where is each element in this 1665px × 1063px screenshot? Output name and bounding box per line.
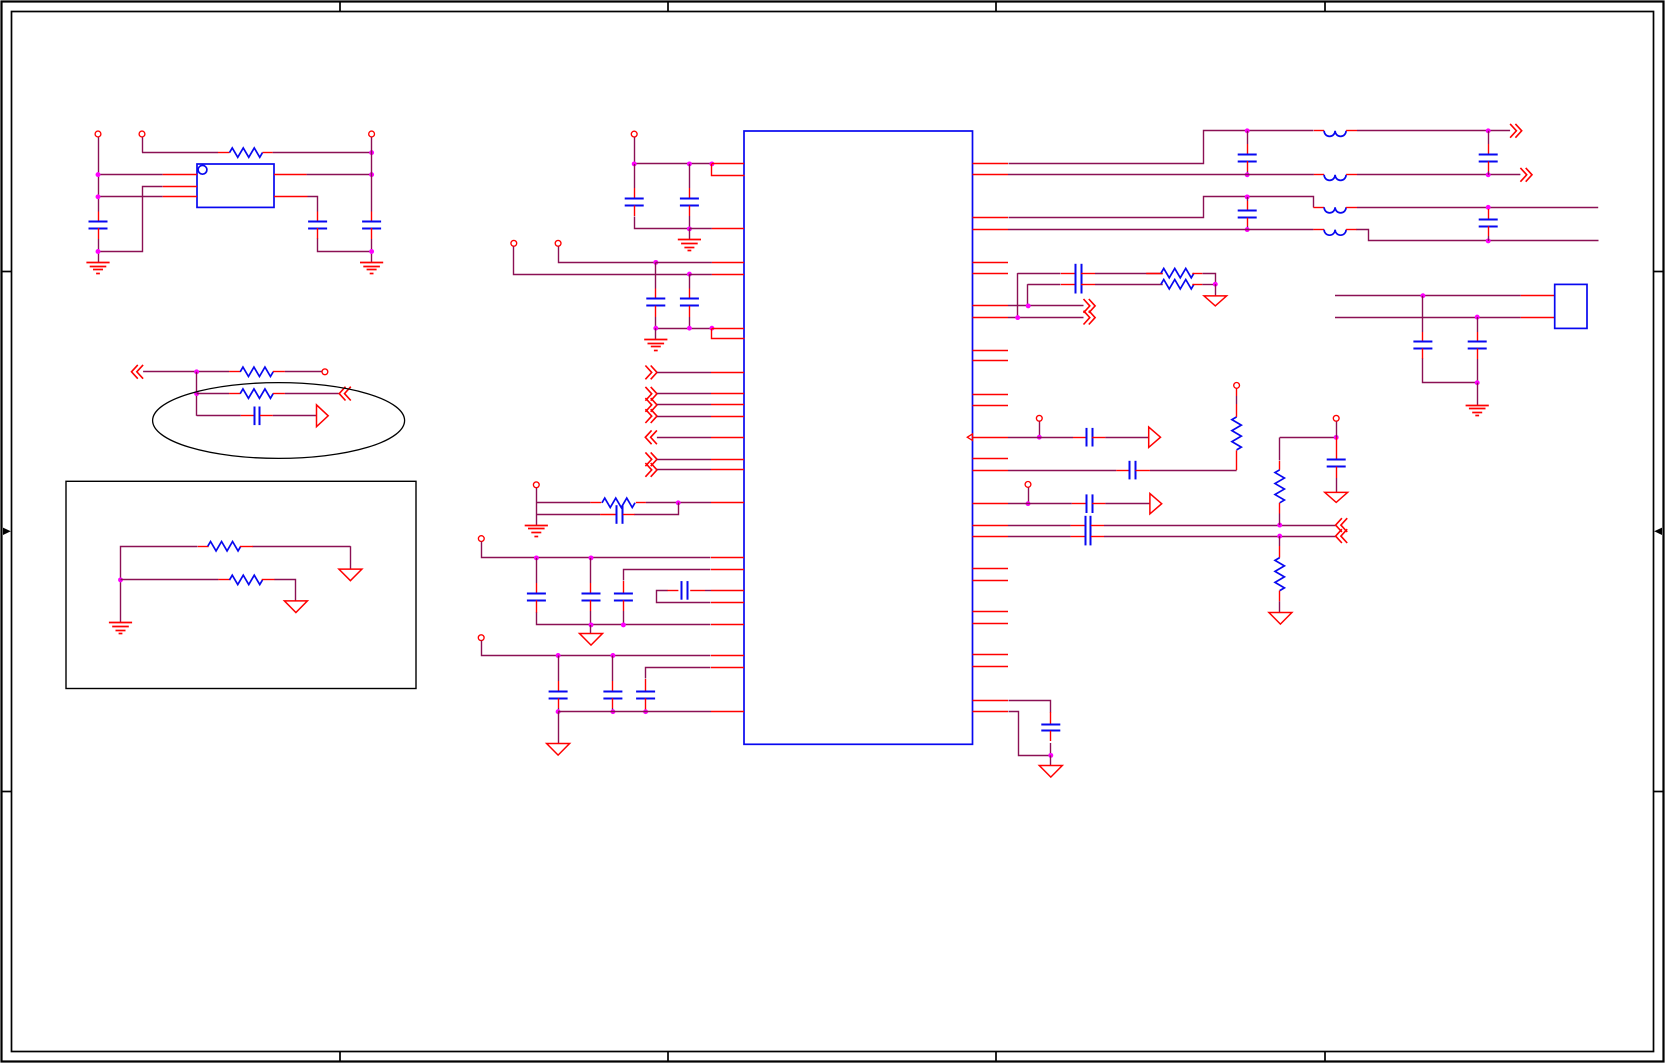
arrow symbol	[1150, 494, 1162, 514]
capacitor C4 lead	[260, 415, 273, 417]
capacitor C10	[527, 594, 546, 601]
resistor R10 lead	[1279, 461, 1281, 470]
wire	[612, 708, 614, 712]
inductor L3	[1313, 207, 1324, 209]
wire	[1008, 174, 1314, 176]
capacitor C16 lead	[645, 698, 647, 711]
wire	[612, 656, 614, 682]
node junction	[643, 709, 648, 714]
off-page connector chevron	[1520, 168, 1532, 182]
node junction	[1277, 523, 1282, 528]
wire	[142, 152, 218, 154]
U2 pin lead	[711, 502, 744, 504]
node junction	[1026, 501, 1031, 506]
wire	[1008, 470, 1116, 472]
capacitor C22 lead	[1081, 284, 1095, 286]
capacitor C8	[680, 299, 699, 306]
wire	[655, 328, 657, 339]
capacitor C4	[255, 407, 260, 426]
capacitor C11 lead	[590, 600, 592, 611]
wire	[657, 469, 711, 471]
capacitor C31 lead	[1477, 317, 1479, 332]
U2 pin lead	[711, 711, 744, 713]
wire	[99, 187, 163, 252]
connector J1	[1555, 284, 1587, 328]
capacitor C14 lead	[558, 681, 560, 692]
off-page connector chevron	[645, 398, 657, 412]
power ground triangle	[1039, 766, 1062, 778]
capacitor C18 lead	[1488, 161, 1490, 171]
capacitor C23	[1087, 428, 1093, 447]
wire	[1336, 478, 1338, 492]
wire	[1009, 701, 1051, 713]
resistor R7	[1146, 273, 1163, 275]
capacitor C19 lead	[1247, 201, 1249, 211]
node junction	[194, 369, 199, 374]
power ground triangle	[1204, 296, 1227, 306]
wire	[689, 216, 691, 229]
wire	[285, 371, 322, 373]
U2 pin lead	[712, 329, 745, 339]
capacitor C9 lead	[600, 514, 617, 516]
wire	[1008, 525, 1071, 527]
group frame box	[66, 481, 416, 688]
capacitor C1	[89, 222, 108, 229]
off-page connector chevron	[645, 463, 657, 477]
wire	[1357, 207, 1598, 209]
border zone ticks top	[340, 2, 1325, 12]
wire	[482, 542, 711, 558]
wire	[285, 393, 339, 395]
wire	[1357, 230, 1599, 241]
capacitor C29	[1041, 725, 1060, 731]
capacitor C3 lead	[371, 212, 373, 222]
node junction	[1026, 303, 1031, 308]
border center arrow left	[3, 528, 11, 535]
node junction	[1213, 282, 1218, 287]
U2 pin arrow	[967, 434, 972, 441]
wire	[1008, 536, 1071, 538]
capacitor C14 lead	[558, 698, 560, 708]
capacitor C23 lead	[1073, 437, 1086, 439]
node junction	[610, 653, 615, 658]
U2 pin lead	[711, 393, 744, 395]
capacitor C26	[1086, 516, 1091, 535]
node junction	[1245, 194, 1250, 199]
wire	[318, 239, 372, 252]
wire	[1009, 197, 1314, 218]
wire	[657, 404, 711, 406]
wire	[689, 164, 691, 188]
resistor R10 lead	[1279, 503, 1281, 514]
wire	[1050, 755, 1052, 765]
border zone ticks left	[2, 272, 12, 792]
wire	[371, 137, 373, 211]
node junction	[687, 226, 692, 231]
wire	[536, 488, 538, 525]
U2 pin stub	[973, 458, 1009, 460]
power ground triangle	[339, 569, 362, 581]
node junction	[96, 172, 101, 177]
capacitor C21 lead	[1081, 273, 1095, 275]
wire	[1247, 197, 1249, 201]
U2 pin stub	[973, 580, 1009, 582]
capacitor C21	[1076, 264, 1082, 283]
capacitor C15 lead	[612, 698, 614, 708]
capacitor C7 lead	[655, 306, 657, 317]
wire	[558, 708, 560, 712]
node junction	[194, 391, 199, 396]
wire	[1008, 317, 1084, 319]
U2 pin lead	[973, 305, 1009, 307]
wire	[590, 611, 592, 625]
port P2	[139, 131, 145, 137]
capacitor C25 lead	[1072, 503, 1087, 505]
capacitor C7 lead	[655, 289, 657, 300]
wire	[536, 502, 590, 504]
port P9	[478, 536, 484, 542]
U2 pin lead	[711, 590, 744, 592]
off-page connector chevron	[645, 366, 657, 380]
node junction	[1015, 315, 1020, 320]
port P8	[533, 482, 539, 488]
wire	[634, 137, 636, 164]
node junction	[1334, 435, 1339, 440]
U2 pin stub	[973, 611, 1009, 613]
capacitor C15 lead	[612, 681, 614, 692]
U2 pin lead	[712, 228, 744, 230]
capacitor C31	[1468, 342, 1487, 349]
wire	[1017, 273, 1019, 318]
inductor L4	[1313, 229, 1324, 231]
U2 pin lead	[712, 164, 745, 176]
U2 pin lead	[711, 655, 744, 657]
wire	[656, 328, 712, 330]
capacitor C13 lead	[690, 590, 705, 592]
capacitor C22 lead	[1061, 284, 1075, 286]
node junction	[1277, 534, 1282, 539]
capacitor C19 lead	[1247, 218, 1249, 226]
wire	[1039, 421, 1041, 437]
capacitor C6	[680, 199, 699, 206]
U1 pin-1 circle	[198, 165, 207, 174]
U2 pin lead	[973, 437, 1009, 439]
border zone ticks right	[1654, 272, 1664, 792]
wire	[1279, 601, 1281, 612]
node junction	[118, 577, 123, 582]
off-page connector chevron	[1336, 518, 1348, 532]
inductor L1	[1314, 130, 1324, 132]
wire	[1247, 171, 1249, 175]
wire	[1150, 470, 1237, 472]
node junction	[687, 272, 692, 277]
wire	[1008, 305, 1084, 307]
U2 pin lead	[711, 569, 744, 571]
capacitor C24	[1130, 461, 1136, 480]
inductor L2	[1314, 174, 1324, 176]
ground	[86, 263, 109, 274]
resistor R9 lead	[1236, 450, 1238, 470]
U2 pin stub	[973, 623, 1009, 625]
wire	[273, 152, 372, 154]
U2 pin lead	[711, 437, 744, 439]
ground	[525, 526, 548, 537]
wire	[1279, 536, 1281, 546]
wire	[197, 415, 241, 417]
U2 pin lead	[711, 624, 744, 626]
off-page connector chevron	[1084, 299, 1096, 313]
capacitor C20 lead	[1488, 226, 1490, 236]
wire	[558, 712, 560, 744]
node junction	[96, 249, 101, 254]
U2 pin lead	[712, 163, 744, 165]
capacitor C28 lead	[1336, 437, 1338, 459]
wire	[1215, 284, 1217, 296]
capacitor C18 lead	[1488, 144, 1490, 155]
port P6	[511, 240, 517, 246]
capacitor C7	[646, 299, 665, 306]
capacitor C2 lead	[317, 228, 319, 239]
ground	[644, 340, 667, 351]
port P7	[555, 240, 561, 246]
wire	[1009, 712, 1051, 756]
connector J1 lead	[1521, 317, 1555, 319]
wire	[655, 317, 657, 328]
wire	[1335, 317, 1521, 319]
U2 pin lead	[973, 163, 1009, 165]
node junction	[687, 161, 692, 166]
wire	[98, 137, 100, 211]
node junction	[589, 555, 594, 560]
U2 pin lead	[712, 262, 744, 264]
wire	[121, 579, 219, 581]
capacitor C13	[682, 581, 688, 600]
off-page connector chevron	[132, 365, 144, 379]
resistor R11	[1275, 558, 1284, 591]
capacitor C21 lead	[1061, 273, 1075, 275]
power ground triangle	[1269, 613, 1292, 625]
wire	[197, 393, 230, 395]
capacitor C17 lead	[1247, 144, 1249, 154]
capacitor C27	[1086, 527, 1091, 546]
wire	[558, 656, 560, 682]
node junction	[369, 150, 374, 155]
wire	[1009, 131, 1314, 164]
node junction	[1486, 205, 1491, 210]
node junction	[589, 622, 594, 627]
node junction	[709, 161, 714, 166]
wire	[657, 459, 711, 461]
wire	[253, 546, 351, 548]
capacitor C22	[1076, 275, 1082, 294]
wire	[143, 371, 229, 373]
wire	[657, 591, 711, 603]
capacitor C27 lead	[1091, 536, 1104, 538]
resistor R8	[1161, 280, 1194, 289]
resistor R9	[1232, 417, 1241, 450]
U2 pin lead	[711, 557, 744, 559]
capacitor C29 lead	[1050, 712, 1052, 724]
U2 pin stub	[973, 666, 1009, 668]
node junction	[369, 172, 374, 177]
port P1	[95, 131, 101, 137]
node junction	[556, 653, 561, 658]
wire	[590, 625, 592, 634]
ground	[109, 623, 132, 634]
wire	[1018, 273, 1061, 275]
wire	[196, 372, 198, 416]
wire	[98, 174, 163, 176]
wire	[635, 217, 690, 229]
wire	[1027, 284, 1029, 306]
U2 pin lead	[711, 602, 744, 604]
U1 pin lead	[274, 174, 307, 176]
node junction	[709, 326, 714, 331]
wire	[1008, 503, 1072, 505]
U2 pin lead	[711, 469, 744, 471]
wire	[1008, 437, 1073, 439]
node junction	[1245, 128, 1250, 133]
power ground triangle	[1325, 492, 1348, 502]
resistor R6	[590, 502, 601, 504]
off-page connector chevron	[1084, 311, 1096, 325]
node junction	[653, 260, 658, 265]
capacitor C10 lead	[536, 600, 538, 613]
wire	[646, 502, 711, 504]
resistor R10	[1275, 470, 1284, 503]
capacitor C16	[636, 692, 655, 699]
power ground triangle	[580, 634, 603, 646]
node junction	[1245, 227, 1250, 232]
resistor R11 lead	[1279, 546, 1281, 558]
wire	[275, 580, 296, 601]
U1 pin lead	[163, 196, 197, 198]
wire	[705, 590, 711, 592]
resistor R3	[229, 393, 240, 395]
port P5	[631, 131, 637, 137]
U2 pin lead	[711, 372, 744, 374]
border zone ticks bottom	[340, 1052, 1325, 1062]
U2 pin lead	[973, 525, 1009, 527]
regulator U1	[197, 164, 274, 207]
capacitor C30 lead	[1422, 332, 1424, 342]
U2 pin stub	[973, 405, 1009, 407]
wire	[623, 611, 625, 625]
node junction	[632, 161, 637, 166]
wire	[1357, 130, 1510, 132]
capacitor C9	[617, 505, 623, 524]
wire	[536, 514, 600, 516]
node junction	[1486, 238, 1491, 243]
node junction	[1475, 315, 1480, 320]
wire	[624, 570, 711, 581]
U2 pin lead	[973, 470, 1009, 472]
U2 pin lead	[712, 328, 744, 330]
resistor R2	[229, 371, 240, 373]
node junction	[1420, 293, 1425, 298]
wire	[1488, 171, 1490, 175]
U2 pin lead	[973, 317, 1009, 319]
capacitor C5 lead	[634, 206, 636, 217]
wire	[1279, 514, 1281, 526]
power ground triangle	[284, 601, 307, 613]
wire	[98, 239, 100, 262]
U1 pin lead	[163, 174, 197, 176]
wire	[689, 228, 712, 230]
off-page connector chevron	[1336, 529, 1348, 543]
capacitor C26 lead	[1071, 525, 1086, 527]
wire	[1477, 383, 1479, 405]
wire	[98, 196, 163, 198]
wire	[1104, 536, 1336, 538]
capacitor C2 lead	[317, 212, 319, 222]
U2 pin lead	[973, 711, 1009, 713]
node junction	[610, 709, 615, 714]
wire	[689, 317, 691, 328]
U2 pin lead	[711, 459, 744, 461]
port P12	[1234, 383, 1240, 389]
node junction	[1486, 128, 1491, 133]
U2 pin lead	[712, 274, 744, 276]
U2 pin lead	[973, 536, 1009, 538]
wire	[1203, 274, 1216, 285]
capacitor C16 lead	[645, 679, 647, 692]
wire	[1247, 226, 1249, 230]
wire	[350, 546, 352, 569]
wire	[1105, 437, 1148, 439]
node junction	[556, 709, 561, 714]
off-page connector chevron	[339, 387, 351, 401]
capacitor C17	[1238, 155, 1257, 162]
node junction	[687, 326, 692, 331]
capacitor C14	[549, 692, 568, 699]
node junction	[676, 500, 681, 505]
ground	[360, 263, 383, 274]
wire	[1280, 437, 1337, 439]
node junction	[1245, 172, 1250, 177]
capacitor C2	[308, 222, 327, 229]
capacitor C8 lead	[689, 306, 691, 317]
off-page connector chevron	[1510, 124, 1522, 138]
capacitor C5	[625, 199, 644, 206]
ground	[678, 240, 701, 251]
capacitor C27 lead	[1071, 536, 1086, 538]
capacitor C1 lead	[98, 228, 100, 239]
node junction	[1048, 753, 1053, 758]
wire	[1423, 359, 1478, 383]
capacitor C8 lead	[689, 289, 691, 300]
capacitor C30 lead	[1422, 349, 1424, 360]
wire	[646, 668, 711, 679]
resistor R4	[198, 546, 209, 548]
wire	[1488, 236, 1490, 241]
port P3	[369, 131, 375, 137]
U2 pin lead	[973, 174, 1009, 176]
port P11	[1036, 415, 1042, 421]
capacitor C17 lead	[1247, 161, 1249, 171]
node junction	[1037, 435, 1042, 440]
capacitor C15	[603, 692, 622, 699]
resistor R1	[218, 152, 230, 154]
node junction	[621, 622, 626, 627]
wire	[1357, 174, 1520, 176]
capacitor C6 lead	[689, 206, 691, 217]
U2 pin stub	[973, 394, 1009, 396]
capacitor C26 lead	[1091, 525, 1104, 527]
capacitor C31 lead	[1477, 349, 1479, 360]
wire	[1105, 503, 1150, 505]
wire	[656, 262, 712, 264]
